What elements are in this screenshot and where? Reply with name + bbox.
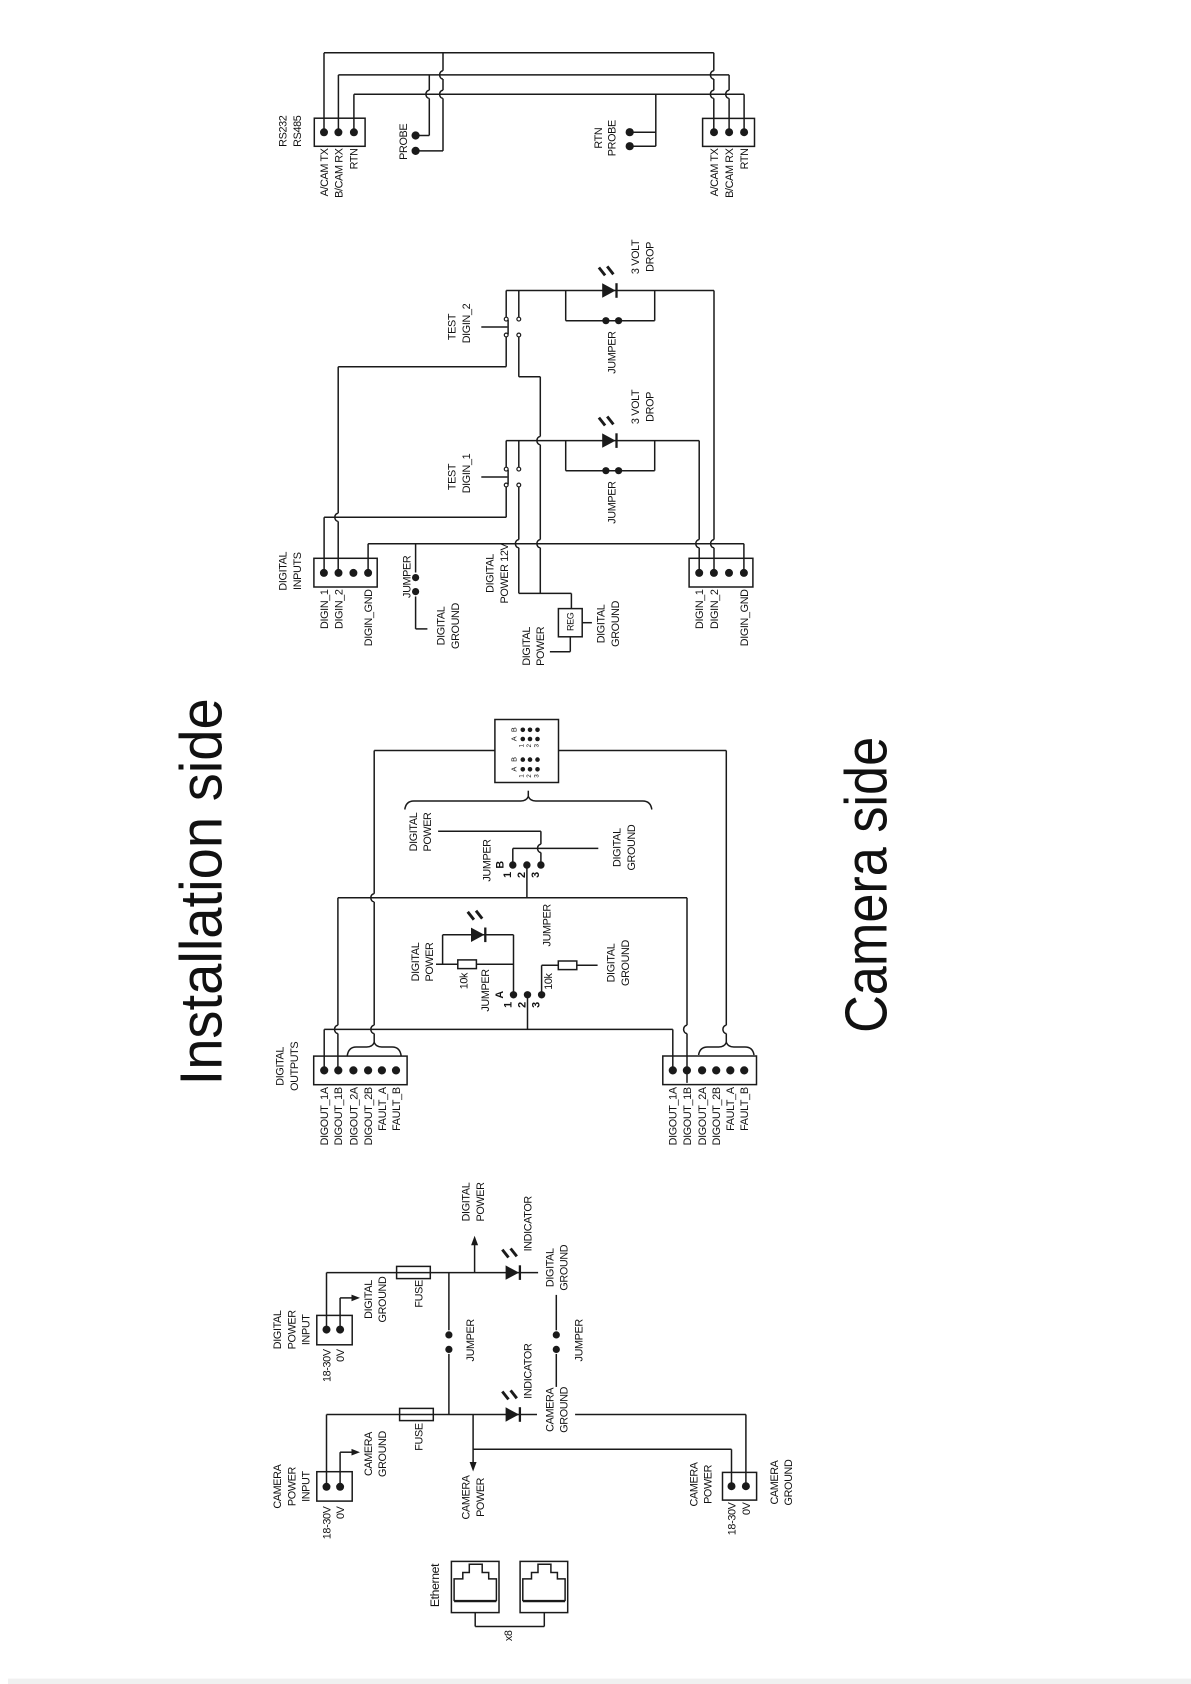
pin B/CAM RX J2 <box>725 128 733 136</box>
wire REG to digital ground <box>582 622 592 624</box>
svg-text:GROUND: GROUND <box>377 1276 389 1322</box>
svg-text:DIGIN_1: DIGIN_1 <box>461 453 473 493</box>
svg-text:DIGOUT_1A: DIGOUT_1A <box>668 1086 680 1145</box>
ethernet jack 2 <box>520 1561 568 1612</box>
regulator REG <box>558 609 582 637</box>
svg-text:JUMPER: JUMPER <box>607 331 619 374</box>
svg-text:POWER: POWER <box>424 942 436 982</box>
svg-text:DIGIN_2: DIGIN_2 <box>333 589 345 629</box>
wire DIGIN_2 top rail <box>506 290 714 292</box>
svg-text:2: 2 <box>517 1002 529 1008</box>
jumper A pin2 <box>524 991 531 998</box>
svg-text:18-30V: 18-30V <box>321 1505 333 1539</box>
jumper block group 1 pins <box>521 728 540 742</box>
svg-text:3: 3 <box>530 872 542 878</box>
svg-text:POWER: POWER <box>286 1467 298 1507</box>
wire probe B to B/CAM RX <box>416 75 430 136</box>
wire RTN/PROBE to RTN net <box>630 94 656 146</box>
svg-text:JUMPER: JUMPER <box>607 481 619 524</box>
svg-text:DROP: DROP <box>645 242 657 272</box>
svg-text:PROBE: PROBE <box>398 124 410 160</box>
svg-text:18-30V: 18-30V <box>321 1348 333 1382</box>
LED A indicator <box>468 911 486 942</box>
wire digital power to jumper B pin3 <box>438 831 541 865</box>
svg-text:CAMERA: CAMERA <box>461 1474 473 1519</box>
pin 1 J5 <box>320 1066 328 1074</box>
wire camera power input to fuse F2 <box>327 1415 538 1487</box>
jumper A pin3 <box>538 991 545 998</box>
jumper bypass loop DIGIN_2 <box>566 291 655 321</box>
svg-text:POWER: POWER <box>422 812 434 852</box>
svg-text:OUTPUTS: OUTPUTS <box>289 1042 301 1091</box>
probe point A (installation) <box>412 147 420 155</box>
jumper pin power top <box>445 1331 452 1338</box>
pin 3 J4 <box>725 569 733 577</box>
wire DIGIN_1 top rail <box>506 440 699 442</box>
svg-text:3 VOLT: 3 VOLT <box>630 239 642 274</box>
svg-text:DIGITAL: DIGITAL <box>485 554 497 593</box>
svg-text:GROUND: GROUND <box>558 1244 570 1290</box>
brace camera outputs bundle <box>699 1042 754 1055</box>
pin 1 J6 <box>669 1066 677 1074</box>
wire 0V digital to digital ground arrow <box>340 1295 360 1330</box>
wire camera power branch with arrow <box>470 1415 732 1487</box>
footer bar <box>8 1679 1191 1684</box>
pin 2 J6 <box>683 1066 691 1074</box>
pin RTN J2 <box>740 128 748 136</box>
wire DIGIN_2 to camera connector <box>711 291 714 573</box>
svg-text:PROBE: PROBE <box>606 120 618 156</box>
connector J7 digital power input <box>317 1315 352 1344</box>
svg-text:DIGITAL: DIGITAL <box>363 1280 375 1319</box>
svg-text:DIGITAL: DIGITAL <box>612 828 624 867</box>
svg-text:RTN: RTN <box>349 148 361 169</box>
svg-text:DIGIN_GND: DIGIN_GND <box>363 589 375 646</box>
wire test S2 to 12V rail <box>519 337 541 594</box>
wire digital power 12V rail <box>519 593 572 608</box>
jumper pin power bottom <box>445 1346 452 1353</box>
pin DIGIN_1 J4 <box>695 569 703 577</box>
svg-text:DIGITAL: DIGITAL <box>596 604 608 643</box>
LED D1 3 volt drop <box>599 417 617 448</box>
pin 5 J5 <box>378 1066 386 1074</box>
pin DIGIN_GND J3 <box>364 569 372 577</box>
jumper DIGIN_GND to digital ground <box>416 544 428 629</box>
brace jumper block scope <box>405 796 652 809</box>
fuse F1 <box>397 1266 431 1278</box>
pin DIGIN_1 J3 <box>320 569 328 577</box>
pin DIGIN_GND J4 <box>740 569 748 577</box>
svg-text:JUMPER: JUMPER <box>480 969 492 1012</box>
svg-text:TEST: TEST <box>446 313 458 340</box>
svg-text:FAULT_A: FAULT_A <box>725 1086 737 1131</box>
LED indicator digital <box>502 1249 520 1280</box>
wire jumper B pin2 to DIGOUT B net <box>526 865 528 898</box>
probe point RTN (camera) <box>626 128 634 136</box>
svg-text:FAULT_B: FAULT_B <box>739 1087 751 1131</box>
pin B/CAM RX J1 <box>334 128 342 136</box>
svg-text:DIGIN_2: DIGIN_2 <box>709 589 721 629</box>
svg-text:A/CAM TX: A/CAM TX <box>709 148 721 196</box>
svg-text:INDICATOR: INDICATOR <box>523 1196 535 1252</box>
wire DIGIN_1 to installation connector <box>324 487 506 573</box>
wire digital power input to fuse F1 <box>327 1273 539 1330</box>
svg-text:JUMPER: JUMPER <box>574 1319 586 1362</box>
svg-text:JUMPER: JUMPER <box>465 1319 477 1362</box>
svg-text:CAMERA: CAMERA <box>689 1461 701 1506</box>
svg-text:DIGOUT_1A: DIGOUT_1A <box>319 1086 331 1145</box>
svg-text:B: B <box>510 727 519 732</box>
connector J4 digital inputs camera <box>689 558 753 587</box>
wire B/CAM RX drop to J2 <box>726 75 729 132</box>
probe point B (installation) <box>412 131 420 139</box>
wire jumper A pin2 to DIGOUT A net <box>527 995 529 1030</box>
jumper pin DIGIN_1 right <box>615 467 622 474</box>
jumper pin gnd top <box>412 574 419 581</box>
svg-text:INDICATOR: INDICATOR <box>523 1343 535 1399</box>
wire digital power to LED/resistor A <box>436 935 514 995</box>
svg-text:CAMERA: CAMERA <box>363 1431 375 1476</box>
svg-text:DIGITAL: DIGITAL <box>436 606 448 645</box>
pin 5 J6 <box>726 1066 734 1074</box>
svg-text:Camera side: Camera side <box>834 737 900 1033</box>
svg-text:JUMPER: JUMPER <box>482 839 494 882</box>
pin 2 J5 <box>334 1066 342 1074</box>
wire B/CAM RX net <box>338 75 729 132</box>
pin DIGIN_2 J3 <box>335 569 343 577</box>
jumper digital/camera power <box>448 1273 450 1415</box>
connector J1 RS232/RS485 installation side <box>314 118 365 146</box>
switch S2 TEST DIGIN_2 <box>481 291 520 337</box>
svg-text:DIGITAL: DIGITAL <box>278 551 290 590</box>
jumper A pin1 <box>510 991 517 998</box>
svg-text:10k: 10k <box>458 972 470 989</box>
connector J8 camera power input <box>317 1472 352 1501</box>
wire RTN net <box>354 94 744 132</box>
svg-text:DIGITAL: DIGITAL <box>408 812 420 851</box>
svg-text:DIGOUT_1B: DIGOUT_1B <box>333 1087 345 1145</box>
connector J9 camera power output <box>723 1472 757 1500</box>
svg-text:POWER: POWER <box>475 1182 487 1222</box>
svg-text:DIGITAL: DIGITAL <box>461 1182 473 1221</box>
pin 3 J3 <box>349 569 357 577</box>
switch S1 TEST DIGIN_1 <box>481 441 520 487</box>
connector J2 RS232/RS485 camera side <box>703 118 755 146</box>
svg-text:0V: 0V <box>335 1348 347 1362</box>
svg-text:REG: REG <box>565 612 575 631</box>
svg-text:DIGITAL: DIGITAL <box>272 1310 284 1349</box>
svg-text:POWER: POWER <box>535 626 547 666</box>
svg-text:B: B <box>510 757 519 762</box>
stub below block <box>527 791 529 796</box>
wire DIGIN_GND net <box>368 544 744 573</box>
jumper pin DIGIN_1 left <box>602 467 609 474</box>
fuse F2 <box>400 1408 434 1420</box>
pin 6 J6 <box>740 1066 748 1074</box>
svg-text:1: 1 <box>503 1002 515 1008</box>
svg-text:x8: x8 <box>503 1630 515 1641</box>
wire block to camera outputs <box>559 751 727 1043</box>
svg-text:3 VOLT: 3 VOLT <box>630 389 642 424</box>
svg-text:GROUND: GROUND <box>377 1431 389 1477</box>
jumper B pin2 <box>523 861 530 868</box>
wire jumper A pin3 to resistor R2 <box>542 965 598 995</box>
svg-text:DIGOUT_1B: DIGOUT_1B <box>682 1087 694 1145</box>
svg-text:JUMPER: JUMPER <box>402 555 414 598</box>
pin 18-30V J7 <box>323 1326 331 1334</box>
svg-text:2: 2 <box>516 872 528 878</box>
jumper bypass loop DIGIN_1 <box>566 441 655 471</box>
jumper block group 2 pins <box>521 757 540 771</box>
wire ethernet jacks x8 <box>475 1613 544 1627</box>
wire DIGOUT B common net <box>335 898 688 1083</box>
svg-text:DIGIN_GND: DIGIN_GND <box>739 589 751 646</box>
jumper pin DIGIN_2 left <box>602 317 609 324</box>
svg-text:DIGITAL: DIGITAL <box>275 1047 287 1086</box>
svg-text:CAMERA: CAMERA <box>272 1463 284 1508</box>
resistor R2 10k <box>558 961 577 970</box>
svg-text:GROUND: GROUND <box>620 940 632 986</box>
svg-text:INPUTS: INPUTS <box>292 552 304 590</box>
ethernet jack 1 <box>451 1561 499 1612</box>
svg-text:POWER 12V: POWER 12V <box>499 542 511 603</box>
pin A/CAM TX J1 <box>320 128 328 136</box>
wire DIGOUT A common net <box>324 1029 673 1070</box>
svg-text:DIGOUT_2A: DIGOUT_2A <box>697 1086 709 1145</box>
svg-text:GROUND: GROUND <box>450 603 462 649</box>
wire DIGIN_2 to installation connector <box>335 337 506 573</box>
wire A/CAM TX drop to J2 <box>710 53 713 132</box>
wire test S1 to 12V rail <box>515 487 518 594</box>
pin 18-30V J8 <box>323 1483 331 1491</box>
svg-text:FUSE: FUSE <box>414 1280 426 1308</box>
svg-text:0V: 0V <box>741 1501 753 1515</box>
title Installation side <box>169 698 235 1085</box>
svg-text:B/CAM RX: B/CAM RX <box>724 148 736 198</box>
wire 0V camera to camera ground arrow <box>340 1449 360 1487</box>
svg-text:Installation side: Installation side <box>169 698 235 1085</box>
svg-text:TEST: TEST <box>446 463 458 490</box>
svg-text:DIGITAL: DIGITAL <box>521 627 533 666</box>
svg-text:INPUT: INPUT <box>301 1314 313 1345</box>
pin 0V J8 <box>336 1483 344 1491</box>
svg-text:3: 3 <box>531 1002 543 1008</box>
svg-text:B/CAM RX: B/CAM RX <box>333 148 345 198</box>
svg-text:18-30V: 18-30V <box>726 1501 738 1535</box>
title Camera side <box>834 737 900 1033</box>
svg-text:POWER: POWER <box>475 1477 487 1517</box>
pin 4 J6 <box>712 1066 720 1074</box>
svg-text:INPUT: INPUT <box>301 1471 313 1502</box>
jumper pin ground bottom <box>553 1346 560 1353</box>
svg-text:RTN: RTN <box>593 128 605 149</box>
wire camera ground net to J9 <box>575 1415 746 1487</box>
brace installation outputs bundle <box>347 1042 401 1056</box>
svg-text:POWER: POWER <box>703 1464 715 1504</box>
svg-text:B: B <box>494 861 506 869</box>
svg-text:DIGOUT_2A: DIGOUT_2A <box>348 1086 360 1145</box>
svg-text:JUMPER: JUMPER <box>542 904 554 947</box>
LED D2 3 volt drop <box>599 266 617 297</box>
jumper pin gnd bottom <box>412 588 419 595</box>
svg-text:GROUND: GROUND <box>558 1386 570 1432</box>
jumper selection block <box>495 720 559 783</box>
wire DIGIN_1 to camera connector <box>696 441 699 573</box>
pin 4 J5 <box>364 1066 372 1074</box>
svg-text:CAMERA: CAMERA <box>769 1459 781 1504</box>
jumper B pin3 <box>537 861 544 868</box>
svg-text:CAMERA: CAMERA <box>545 1387 557 1432</box>
probe point PROBE (camera) <box>626 142 634 150</box>
svg-text:DIGITAL: DIGITAL <box>545 1248 557 1287</box>
svg-text:DIGIN_1: DIGIN_1 <box>319 589 331 629</box>
pin RTN J1 <box>350 128 358 136</box>
wire A/CAM TX net <box>324 53 714 133</box>
resistor R1 10k <box>458 960 477 969</box>
svg-text:DIGIN_1: DIGIN_1 <box>694 589 706 629</box>
svg-text:FUSE: FUSE <box>414 1423 426 1451</box>
LED indicator camera <box>502 1390 520 1421</box>
jumper digital/camera ground <box>555 1295 557 1387</box>
svg-text:DIGOUT_2B: DIGOUT_2B <box>711 1087 723 1145</box>
pin 0V J9 <box>742 1482 750 1490</box>
jumper pin DIGIN_2 right <box>615 317 622 324</box>
svg-text:FAULT_A: FAULT_A <box>377 1086 389 1131</box>
pin 3 J6 <box>698 1066 706 1074</box>
svg-text:1: 1 <box>502 872 514 878</box>
pin A/CAM TX J2 <box>710 128 718 136</box>
pin 6 J5 <box>392 1066 400 1074</box>
svg-text:GROUND: GROUND <box>626 824 638 870</box>
svg-text:RS232: RS232 <box>277 115 289 147</box>
svg-text:A: A <box>494 991 506 999</box>
pin 0V J7 <box>336 1326 344 1334</box>
wire jumper B pin1 to digital ground <box>513 848 599 865</box>
svg-text:DIGITAL: DIGITAL <box>606 943 618 982</box>
svg-text:0V: 0V <box>335 1505 347 1519</box>
wire REG output to digital power <box>550 637 570 652</box>
jumper B pin1 <box>509 861 516 868</box>
svg-text:RS485: RS485 <box>292 115 304 147</box>
connector J5 digital outputs installation <box>314 1056 407 1085</box>
svg-text:A/CAM TX: A/CAM TX <box>319 148 331 196</box>
wire probe A to A/CAM TX <box>416 53 443 151</box>
pin 18-30V J9 <box>728 1482 736 1490</box>
svg-text:DROP: DROP <box>645 392 657 422</box>
svg-text:DIGIN_2: DIGIN_2 <box>461 303 473 343</box>
pin DIGIN_2 J4 <box>710 569 718 577</box>
svg-text:RTN: RTN <box>739 148 751 169</box>
arrow digital power out <box>471 1236 478 1273</box>
svg-text:GROUND: GROUND <box>610 600 622 646</box>
svg-text:FAULT_B: FAULT_B <box>391 1087 403 1131</box>
svg-text:DIGITAL: DIGITAL <box>410 942 422 981</box>
jumper pin ground top <box>553 1331 560 1338</box>
wire block to installation outputs <box>371 751 495 1043</box>
pin 3 J5 <box>349 1066 357 1074</box>
svg-text:GROUND: GROUND <box>783 1459 795 1505</box>
connector J6 digital outputs camera <box>663 1056 757 1085</box>
svg-text:A: A <box>510 736 519 741</box>
svg-text:POWER: POWER <box>286 1310 298 1350</box>
svg-text:A: A <box>510 767 519 772</box>
svg-text:Ethernet: Ethernet <box>428 1563 442 1607</box>
svg-text:DIGOUT_2B: DIGOUT_2B <box>363 1087 375 1145</box>
connector J3 digital inputs installation <box>314 558 377 587</box>
svg-text:10k: 10k <box>543 972 555 989</box>
